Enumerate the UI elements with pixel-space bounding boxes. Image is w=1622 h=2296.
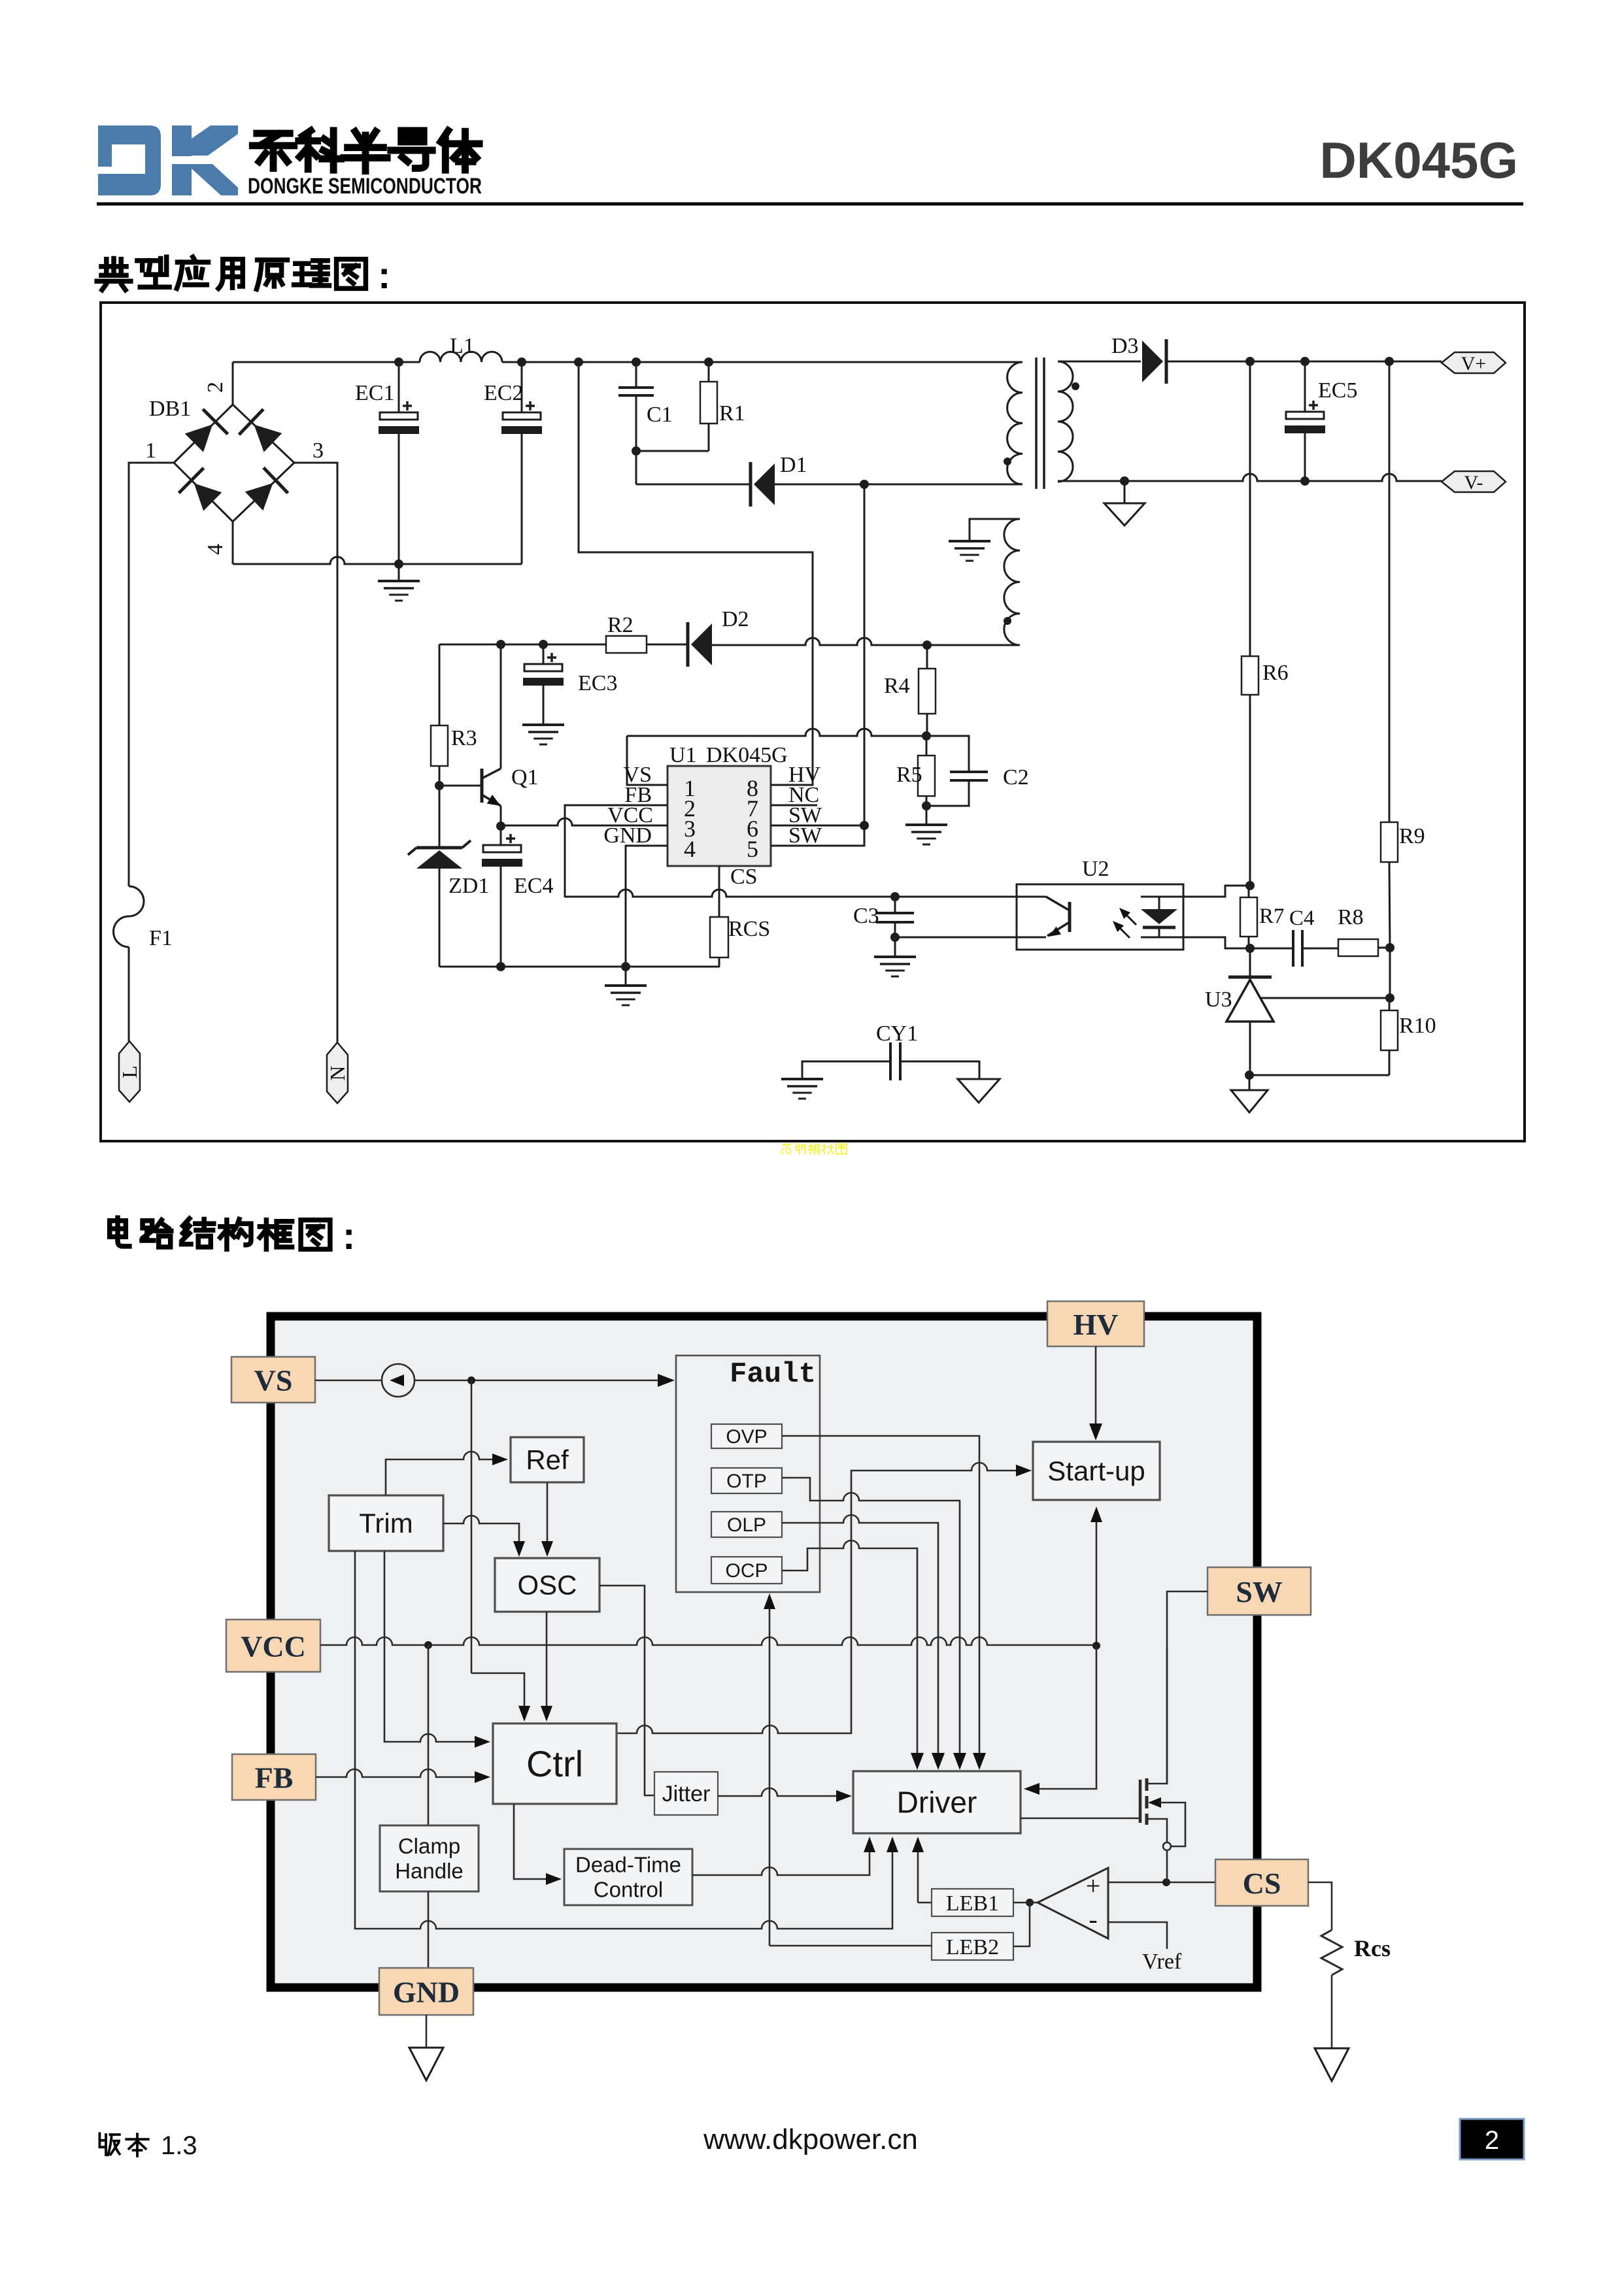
wire V- rail	[1058, 474, 1442, 481]
ground GND port	[426, 2015, 428, 2048]
inductor L1	[420, 352, 502, 362]
node Vp-R6	[1245, 357, 1255, 366]
svg-text:Start-up: Start-up	[1047, 1456, 1145, 1486]
svg-text:+: +	[1086, 1871, 1101, 1901]
node VCC clamp	[424, 1641, 432, 1649]
resistor R10	[1381, 1010, 1398, 1050]
node VCC-Q1e	[496, 822, 505, 831]
node comp out	[1026, 1899, 1034, 1906]
wire Trim to OSC	[443, 1516, 519, 1542]
transformer aux winding	[1004, 519, 1020, 645]
node top-EC1	[394, 358, 403, 367]
svg-text:D2: D2	[722, 607, 749, 631]
svg-text:OSC: OSC	[517, 1570, 577, 1601]
arrows into Driver top	[911, 1753, 924, 1770]
wire secondary top to D3	[1058, 361, 1141, 363]
svg-text:C2: C2	[1003, 765, 1029, 790]
node SW-primary	[860, 480, 869, 489]
ground secondary	[1124, 481, 1126, 503]
pin5 SW wire	[771, 825, 864, 846]
wire D1 to SW node	[775, 484, 1022, 486]
wire SW	[1167, 1591, 1208, 1647]
wire R2-D2	[647, 644, 688, 646]
wire HV to Start-up	[1095, 1346, 1097, 1425]
svg-text:R5: R5	[896, 763, 922, 787]
transformer T1 secondary	[1058, 361, 1073, 482]
svg-text:R2: R2	[607, 613, 634, 637]
node top-HV	[574, 358, 583, 367]
node VS div	[922, 731, 931, 740]
title 电路结构框图:	[110, 1218, 129, 1246]
node gnd pin	[621, 962, 630, 971]
port VCC	[226, 1620, 320, 1672]
node Vp-R9	[1385, 357, 1394, 366]
node top-EC2	[517, 358, 526, 367]
svg-text:Ctrl: Ctrl	[526, 1743, 583, 1784]
block LEB1	[932, 1889, 1013, 1916]
svg-text:OTP: OTP	[726, 1471, 767, 1492]
node Q1c	[496, 640, 505, 649]
wire comp to LEB2	[1013, 1903, 1030, 1946]
shunt regulator U3	[1249, 948, 1251, 977]
node U3 gnd	[1245, 1071, 1254, 1080]
node Q1 base	[435, 781, 444, 790]
schematic frame	[101, 303, 1525, 1141]
node VCC right	[1092, 1642, 1100, 1650]
optocoupler U2	[1017, 884, 1183, 950]
wire Trim to Ref	[386, 1452, 492, 1495]
svg-text:CS: CS	[1243, 1867, 1281, 1900]
node CS	[1162, 1878, 1170, 1886]
wire Ref to OSC	[547, 1482, 549, 1542]
svg-text:VS: VS	[254, 1364, 293, 1397]
wire OVP out	[782, 1436, 979, 1755]
wire Clamp to GND	[428, 1891, 430, 1968]
resistor R2	[606, 636, 647, 653]
connector N	[327, 1042, 348, 1103]
svg-text::: :	[378, 254, 390, 297]
diode D1	[754, 463, 775, 505]
FB net wire	[565, 890, 1017, 897]
opto light arrows	[1122, 910, 1136, 925]
wire Trim left leg	[355, 1551, 892, 1929]
wire bottom bus	[232, 522, 234, 564]
svg-text:EC2: EC2	[484, 381, 523, 405]
MOSFET Q	[1021, 1818, 1140, 1820]
node R6-R7	[1245, 881, 1255, 890]
wire comp plus input	[1108, 1882, 1215, 1884]
svg-text:R6: R6	[1262, 661, 1289, 685]
block Jitter	[654, 1772, 718, 1815]
footer page box	[1460, 2119, 1524, 2159]
resistor R6	[1249, 361, 1251, 656]
wire R9 to ref node	[1389, 948, 1391, 998]
svg-text:Handle: Handle	[395, 1859, 464, 1883]
wire D2 to aux	[712, 638, 1020, 645]
svg-text:F1: F1	[149, 926, 173, 950]
svg-text:DB1: DB1	[149, 397, 191, 421]
wire V+ rail	[1166, 361, 1442, 363]
port FB	[232, 1754, 316, 1800]
transistor Q1	[439, 785, 481, 787]
wire OCP out	[782, 1540, 917, 1755]
block LEB2	[932, 1933, 1013, 1960]
svg-text:1: 1	[145, 439, 156, 463]
svg-text:RCS: RCS	[728, 917, 770, 941]
svg-text:L: L	[118, 1065, 141, 1078]
svg-text:C3: C3	[853, 904, 879, 928]
svg-text:C4: C4	[1289, 907, 1315, 930]
svg-text:EC3: EC3	[578, 671, 617, 695]
wire opto top to node	[1183, 886, 1250, 897]
svg-text:SW: SW	[1236, 1575, 1283, 1608]
node EC1-gnd	[394, 559, 403, 569]
svg-text:DONGKE SEMICONDUCTOR: DONGKE SEMICONDUCTOR	[248, 174, 482, 199]
node SW pins	[860, 821, 869, 830]
node ref	[1385, 993, 1394, 1003]
svg-text:D3: D3	[1111, 334, 1139, 358]
wire opto bot to node	[1183, 937, 1250, 948]
wire Jitter to Driver	[718, 1788, 837, 1796]
ground EC3	[522, 724, 564, 726]
resistor R9	[1389, 361, 1391, 822]
capacitor C4	[1250, 948, 1293, 950]
svg-text:R1: R1	[719, 401, 745, 425]
diode D2	[691, 624, 712, 665]
svg-text:N: N	[326, 1065, 349, 1080]
svg-text:Driver: Driver	[897, 1786, 977, 1820]
svg-text:FB: FB	[255, 1761, 294, 1795]
svg-text:U2: U2	[1082, 857, 1109, 881]
svg-text:R10: R10	[1399, 1014, 1436, 1038]
ground C3	[894, 937, 896, 957]
ground aux	[949, 540, 990, 542]
block Dead-Time Control	[564, 1849, 692, 1905]
port GND	[379, 1968, 473, 2015]
fuse F1	[114, 886, 144, 947]
svg-text:3: 3	[313, 439, 324, 463]
svg-text:EC1: EC1	[355, 381, 394, 405]
capacitor EC4	[483, 845, 521, 852]
wire U3 ref	[1261, 997, 1390, 999]
node Vp-EC5	[1300, 357, 1309, 366]
pin7 NC stub	[771, 805, 817, 807]
svg-text:Q1: Q1	[511, 765, 539, 790]
svg-text:1.3: 1.3	[161, 2131, 197, 2160]
block Ctrl	[493, 1723, 617, 1804]
node sec-gnd	[1120, 476, 1129, 486]
svg-text:C1: C1	[647, 403, 673, 427]
wire snubber to D1	[635, 451, 637, 484]
wire Rcs to gnd	[1331, 1975, 1333, 2048]
capacitor C1	[635, 362, 637, 388]
capacitor C3	[894, 897, 896, 913]
watermark	[781, 1144, 790, 1154]
svg-text:Jitter: Jitter	[662, 1782, 711, 1806]
resistor R8	[1338, 939, 1378, 956]
wire VCC rail	[320, 1637, 1096, 1645]
bridge rectifier DB1	[174, 405, 294, 522]
svg-text:R8: R8	[1338, 905, 1364, 929]
arrow into Fault	[658, 1374, 675, 1387]
block OCP	[711, 1557, 782, 1584]
resistor R1	[708, 362, 710, 382]
svg-text:U1: U1	[669, 743, 697, 767]
resistor RCS	[710, 917, 728, 957]
wire top rail	[233, 361, 420, 363]
svg-text:Trim: Trim	[359, 1508, 413, 1539]
block OLP	[711, 1512, 782, 1537]
block Ref	[511, 1437, 584, 1482]
pin CS wire	[718, 866, 720, 917]
svg-text:Control: Control	[594, 1878, 663, 1902]
pin4 GND wire	[626, 846, 667, 967]
pin1 VS wire	[627, 736, 667, 785]
wire node2 stub	[232, 362, 234, 405]
svg-text::: :	[343, 1215, 355, 1257]
capacitor EC5	[1286, 412, 1324, 419]
diode D3	[1142, 341, 1163, 382]
connector V+	[1442, 352, 1506, 373]
pin2 FB wire	[565, 805, 667, 897]
capacitor EC2	[503, 412, 541, 420]
wire CS to Rcs	[1308, 1882, 1332, 1930]
block Clamp Handle	[380, 1825, 479, 1891]
block OSC	[495, 1558, 600, 1612]
svg-text:EC4: EC4	[514, 874, 553, 898]
block Driver	[853, 1771, 1021, 1833]
wire aux top to gnd	[970, 519, 1020, 541]
wire Ctrl to Start-up	[617, 1463, 1017, 1733]
transformer core	[1035, 358, 1038, 489]
wire Ctrl to DeadTime	[514, 1804, 547, 1879]
wire Trim to Ctrl	[384, 1551, 475, 1742]
svg-text:2: 2	[1485, 2126, 1499, 2155]
footer version	[99, 2133, 119, 2155]
port CS	[1215, 1859, 1308, 1906]
block Fault	[676, 1356, 820, 1592]
ground CY1 left	[781, 1078, 823, 1080]
svg-text:DK045G: DK045G	[1320, 131, 1518, 189]
VS net wire	[627, 729, 926, 736]
wire node3 to N	[294, 463, 337, 1042]
wire R2 rail	[439, 644, 606, 646]
svg-text:R3: R3	[451, 726, 477, 750]
wire comp minus input Vref	[1108, 1922, 1167, 1949]
node top-R1	[704, 358, 713, 367]
svg-text:R7: R7	[1259, 905, 1285, 928]
wire node1 to fuse	[129, 463, 174, 886]
svg-text:VCC: VCC	[241, 1630, 306, 1663]
svg-text:GND: GND	[393, 1976, 460, 2009]
port SW	[1208, 1567, 1311, 1615]
wire VS down	[471, 1380, 473, 1673]
phase dot primary	[1004, 458, 1011, 465]
block diagram frame	[271, 1316, 1257, 1988]
svg-text:www.dkpower.cn: www.dkpower.cn	[703, 2123, 918, 2155]
current source symbol	[315, 1380, 382, 1382]
svg-text:L1: L1	[450, 334, 475, 358]
wire VCC to Start-up bottom	[1096, 1521, 1098, 1646]
port HV	[1047, 1301, 1144, 1346]
wire C3 to opto	[895, 937, 1017, 939]
wire OSC to Jitter	[600, 1586, 654, 1795]
node R7 bottom	[1245, 944, 1255, 953]
ground EC1	[398, 564, 400, 581]
svg-text:LEB2: LEB2	[946, 1935, 999, 1959]
svg-text:-: -	[1089, 1905, 1097, 1934]
header rule	[97, 203, 1523, 206]
block OTP	[711, 1468, 782, 1493]
svg-text:Dead-Time: Dead-Time	[575, 1853, 681, 1877]
zener ZD1	[439, 786, 441, 846]
logo text 东科半导体	[252, 133, 294, 168]
capacitor CY1	[802, 1061, 890, 1079]
node top-C1	[632, 358, 641, 367]
block Trim	[329, 1495, 443, 1551]
wire R10 to gnd	[1249, 1074, 1389, 1076]
block OVP	[711, 1424, 782, 1448]
wire LEB2 left	[769, 1945, 932, 1947]
wire VS to Ctrl top	[471, 1673, 524, 1706]
block Start-up	[1033, 1442, 1160, 1500]
svg-text:Rcs: Rcs	[1354, 1935, 1391, 1961]
wire DeadTime to Driver	[692, 1851, 870, 1875]
connector L	[119, 1041, 140, 1102]
wire FB to Ctrl	[316, 1769, 475, 1777]
svg-text:CY1: CY1	[876, 1022, 918, 1046]
svg-text:SW: SW	[788, 824, 822, 848]
svg-text:R9: R9	[1399, 824, 1425, 848]
wire VCC to Driver right	[1038, 1646, 1096, 1789]
capacitor C2	[926, 736, 969, 772]
node C3 top	[890, 892, 900, 901]
node R5 gnd	[922, 801, 931, 810]
pin3 VCC wire	[501, 818, 667, 825]
svg-text:Fault: Fault	[730, 1358, 816, 1391]
wire LEB2 to Fault bottom	[769, 1607, 771, 1946]
pin8 HV wire	[579, 362, 813, 785]
node VS	[467, 1376, 475, 1384]
node EC4 gnd	[496, 962, 505, 971]
svg-text:CS: CS	[730, 865, 758, 889]
port VS	[231, 1357, 315, 1403]
svg-text:2: 2	[203, 382, 228, 393]
wire LEB1 to Driver	[917, 1851, 919, 1903]
resistor R5	[918, 756, 935, 796]
capacitor EC1	[380, 412, 418, 420]
svg-text:HV: HV	[1073, 1308, 1119, 1341]
svg-text:4: 4	[203, 544, 228, 555]
node EC3	[539, 640, 548, 649]
wire VCC to Clamp	[428, 1645, 430, 1825]
svg-text:U3: U3	[1205, 988, 1232, 1012]
resistor R7	[1240, 897, 1257, 937]
svg-text:V-: V-	[1464, 472, 1483, 493]
svg-text:OVP: OVP	[726, 1426, 767, 1448]
pin6 SW wire	[771, 825, 864, 827]
svg-text:EC5: EC5	[1318, 378, 1357, 403]
svg-text:D1: D1	[780, 453, 807, 477]
wire gnd bus	[439, 966, 720, 968]
logo DK mark	[98, 125, 161, 195]
resistor R3	[439, 644, 441, 725]
svg-text:ZD1: ZD1	[448, 874, 489, 898]
svg-text:R4: R4	[884, 674, 910, 698]
wire OTP out	[782, 1478, 960, 1755]
node R8-R9	[1385, 943, 1394, 952]
svg-text:V+: V+	[1461, 353, 1487, 374]
resistor R4	[926, 645, 928, 669]
svg-text:OCP: OCP	[725, 1560, 768, 1582]
node C3 bottom	[890, 933, 900, 942]
svg-text:5: 5	[747, 836, 758, 862]
transformer T1 primary	[1007, 362, 1022, 484]
svg-text:Vref: Vref	[1142, 1950, 1182, 1974]
IC U1 DK045G	[667, 766, 771, 866]
resistor Rcs zigzag	[1321, 1930, 1342, 1975]
phase dot aux	[1004, 617, 1011, 625]
wire fuse to L	[128, 947, 130, 1041]
SW vertical	[864, 484, 866, 825]
svg-text:DK045G: DK045G	[706, 743, 788, 767]
node R4 top	[922, 641, 932, 650]
svg-text:OLP: OLP	[727, 1514, 766, 1536]
svg-text:LEB1: LEB1	[946, 1891, 999, 1916]
capacitor EC3	[524, 664, 562, 671]
ground U3	[1249, 1075, 1251, 1090]
node Vm-EC5	[1300, 476, 1309, 486]
title 典型应用原理图:	[97, 259, 131, 290]
svg-text:GND: GND	[603, 824, 652, 848]
connector V-	[1442, 471, 1506, 492]
ground R5	[926, 806, 928, 825]
wire OLP out	[782, 1515, 938, 1755]
phase dot secondary	[1072, 382, 1079, 390]
svg-text:4: 4	[684, 836, 696, 862]
ground CY1 right	[958, 1079, 1000, 1103]
comparator	[1038, 1868, 1108, 1938]
ground main	[625, 967, 627, 986]
svg-text:Ref: Ref	[526, 1444, 569, 1475]
node snubber	[632, 446, 641, 456]
wire OSC to Ctrl top	[546, 1612, 548, 1706]
svg-text:Clamp: Clamp	[398, 1834, 460, 1858]
